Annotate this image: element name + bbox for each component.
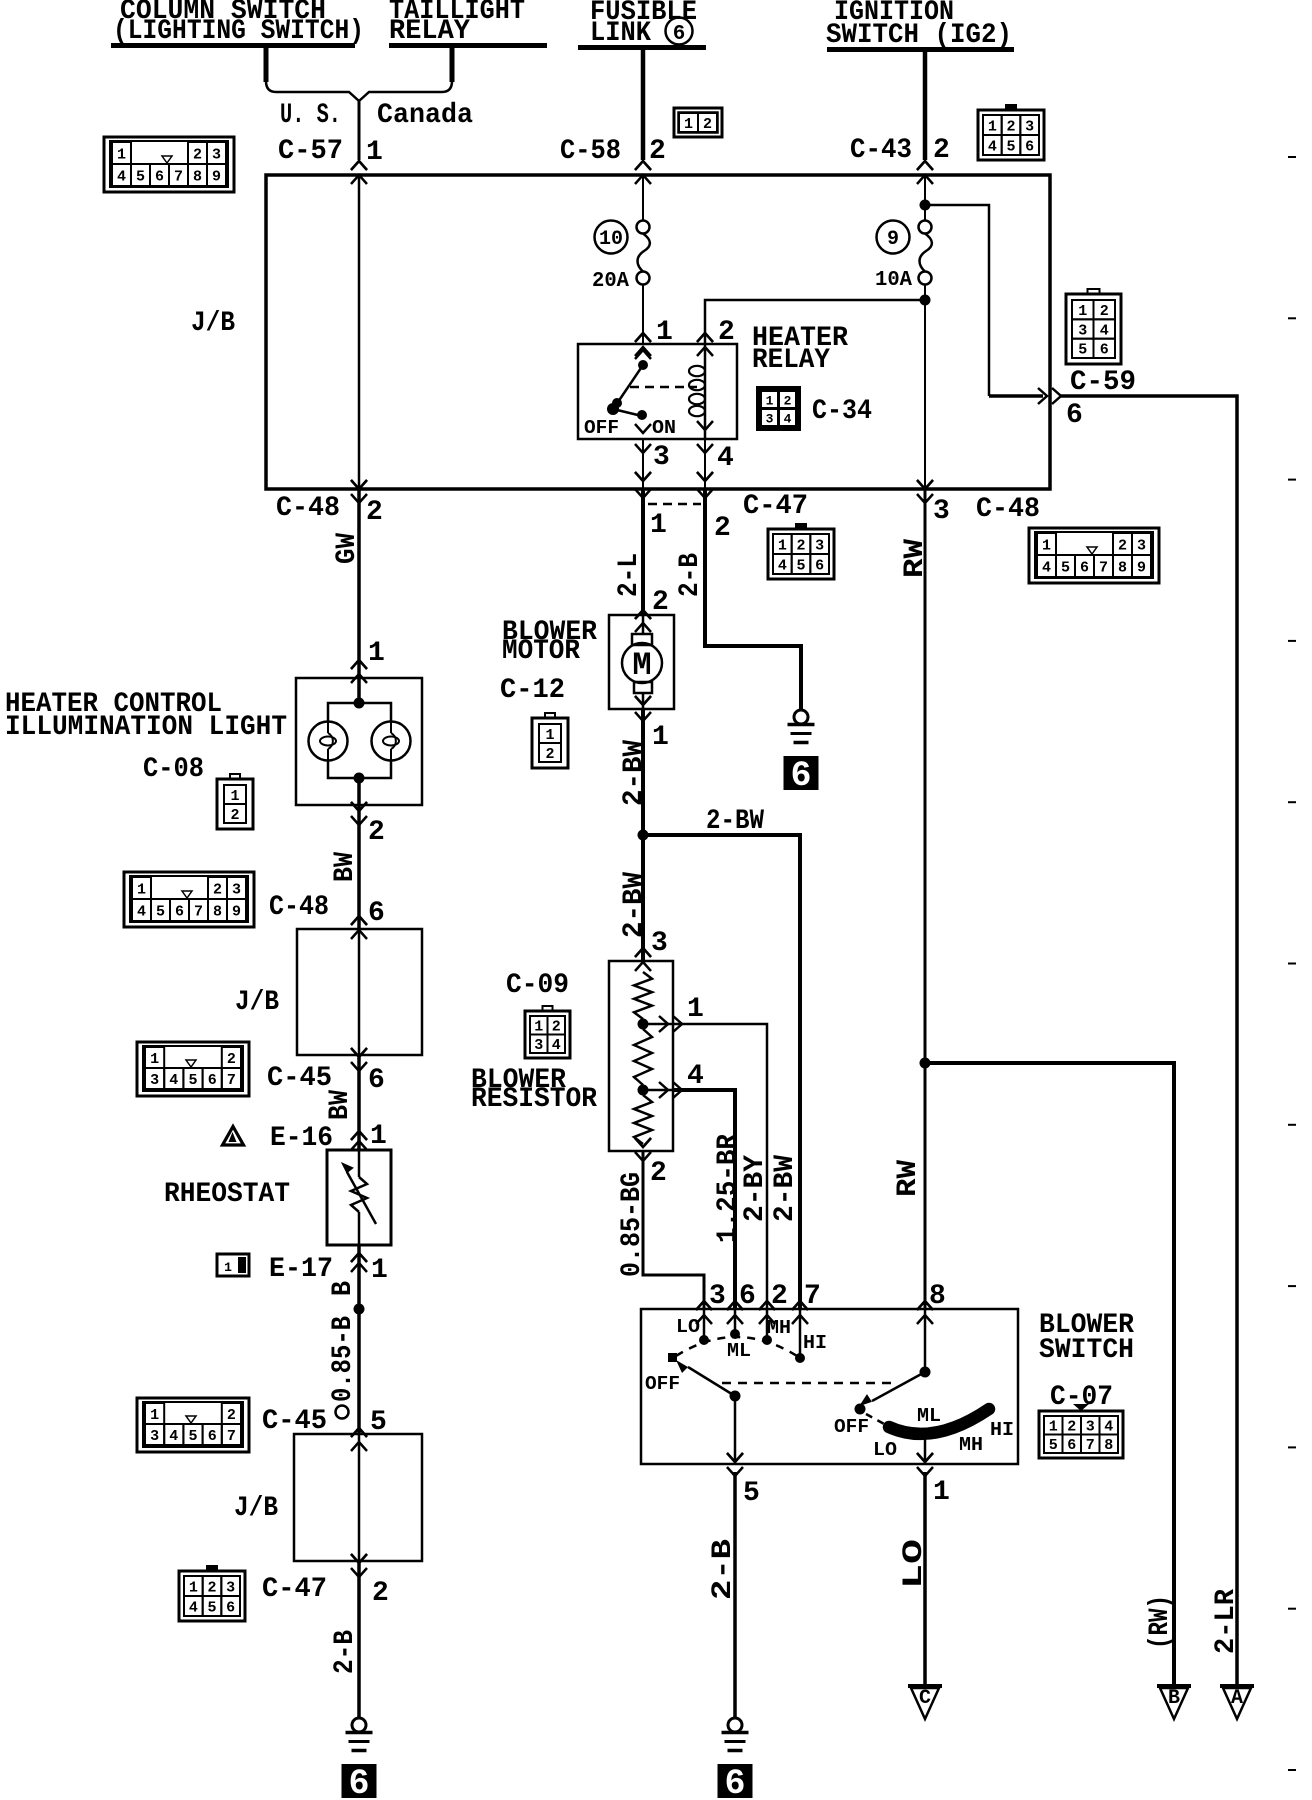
svg-text:2: 2 — [784, 394, 792, 409]
wire 2-BW branch to blower switch pin 7 — [643, 835, 800, 1309]
node relay feed branch — [920, 295, 931, 306]
connector icon C-45 lower — [137, 1398, 249, 1452]
svg-text:2: 2 — [366, 497, 383, 528]
connector icon C-45 — [137, 1042, 249, 1096]
svg-text:6: 6 — [1080, 559, 1089, 576]
motor symbol — [642, 615, 645, 634]
svg-text:E-17: E-17 — [269, 1254, 333, 1285]
svg-text:1: 1 — [137, 881, 146, 898]
switch contact crescent — [889, 1409, 989, 1434]
fuse 10 20A — [637, 221, 650, 234]
svg-text:C-45: C-45 — [267, 1063, 332, 1094]
svg-text:1: 1 — [650, 510, 667, 541]
svg-text:2: 2 — [1118, 537, 1127, 554]
svg-text:2: 2 — [207, 1579, 216, 1596]
svg-text:MOTOR: MOTOR — [502, 636, 580, 667]
svg-text:4: 4 — [778, 557, 787, 574]
svg-text:C-08: C-08 — [143, 754, 204, 785]
wire GW — [357, 489, 361, 678]
svg-text:SWITCH (IG2): SWITCH (IG2) — [826, 20, 1012, 51]
connector icon C-59 — [1088, 289, 1100, 294]
svg-text:2-BW: 2-BW — [619, 872, 650, 938]
svg-text:RELAY: RELAY — [752, 345, 830, 376]
svg-text:2: 2 — [227, 1407, 236, 1424]
svg-text:2: 2 — [193, 146, 202, 163]
connector icon C-43 — [1005, 104, 1017, 111]
switch BLOWER SWITCH box — [641, 1309, 1018, 1464]
svg-text:6: 6 — [208, 1428, 217, 1445]
svg-text:1: 1 — [224, 1260, 232, 1275]
svg-text:2: 2 — [649, 136, 666, 167]
wire 0.85-BG from resistor pin 2 — [635, 1138, 651, 1147]
wire BW to C-48 — [351, 802, 367, 811]
brace merging U.S./Canada feeds — [264, 48, 269, 82]
wire C-58 to fuse 10 — [642, 175, 644, 221]
svg-text:1: 1 — [1042, 537, 1051, 554]
svg-text:3: 3 — [653, 442, 670, 473]
node RW branch to B — [920, 1058, 931, 1069]
svg-text:8: 8 — [1118, 559, 1127, 576]
svg-text:3: 3 — [1025, 118, 1034, 135]
connector icon C-07 — [1073, 1404, 1089, 1411]
svg-text:SWITCH: SWITCH — [1039, 1335, 1134, 1366]
rheostat RHEOSTAT box — [327, 1150, 391, 1245]
svg-text:Canada: Canada — [377, 100, 473, 131]
svg-text:1: 1 — [371, 1255, 388, 1286]
wire fuse 9 to junction — [924, 285, 926, 489]
resistor element 3 — [634, 1095, 652, 1144]
relay pin 3 wire — [635, 424, 651, 433]
relay HEATER RELAY box — [578, 344, 737, 439]
switch pin 5 exit — [734, 1396, 737, 1464]
wire C-57 feed — [358, 101, 361, 160]
svg-text:7: 7 — [194, 903, 203, 920]
svg-text:1: 1 — [230, 788, 239, 805]
resistor element 2 — [634, 1029, 652, 1085]
svg-text:2: 2 — [650, 1158, 667, 1189]
svg-text:3: 3 — [232, 881, 241, 898]
wire B below rheostat — [357, 1245, 361, 1434]
svg-text:5: 5 — [156, 903, 165, 920]
ground middle — [728, 1718, 742, 1732]
svg-text:9: 9 — [232, 903, 241, 920]
svg-text:C-48: C-48 — [976, 494, 1040, 525]
svg-text:C-12: C-12 — [500, 675, 565, 706]
svg-text:1: 1 — [778, 537, 787, 554]
svg-text:3: 3 — [150, 1428, 159, 1445]
svg-text:5: 5 — [188, 1428, 197, 1445]
svg-text:C-47: C-47 — [743, 491, 808, 522]
svg-text:4: 4 — [717, 443, 734, 474]
svg-text:4: 4 — [169, 1072, 178, 1089]
svg-text:6: 6 — [1100, 342, 1109, 359]
ground marker 6 black box right — [784, 756, 819, 790]
switch dashed contact arc — [676, 1337, 797, 1356]
svg-text:9: 9 — [212, 168, 221, 185]
svg-text:LINK: LINK — [590, 18, 651, 49]
svg-text:ML: ML — [917, 1405, 941, 1427]
svg-text:3: 3 — [651, 928, 668, 959]
svg-text:2-LR: 2-LR — [1211, 1589, 1242, 1654]
wire C-57 through J/B — [358, 175, 361, 488]
switch contact LO — [703, 1309, 706, 1340]
svg-text:1: 1 — [545, 727, 554, 744]
wire C-43 to fuse 9 — [924, 175, 926, 221]
switch right OFF contact — [855, 1404, 866, 1415]
connector icon 2pin near fusible link — [674, 108, 722, 137]
svg-text:4: 4 — [1100, 322, 1109, 339]
relay coil — [704, 344, 707, 439]
wire resistor pin 1 (2-BY) — [643, 1024, 767, 1309]
svg-text:ML: ML — [727, 1340, 751, 1362]
svg-text:1: 1 — [684, 116, 693, 133]
svg-text:LO: LO — [676, 1316, 700, 1338]
ground left — [352, 1718, 366, 1732]
svg-text:2: 2 — [652, 587, 669, 618]
svg-text:2: 2 — [213, 881, 222, 898]
motor BLOWER MOTOR box — [609, 615, 674, 709]
svg-text:20A: 20A — [592, 270, 629, 293]
svg-text:RHEOSTAT: RHEOSTAT — [164, 1179, 290, 1210]
svg-text:2: 2 — [372, 1578, 389, 1609]
svg-text:3: 3 — [226, 1579, 235, 1596]
svg-text:10A: 10A — [875, 269, 912, 292]
svg-text:3: 3 — [534, 1037, 543, 1054]
wire fusible link feed — [641, 50, 646, 160]
svg-text:OFF: OFF — [645, 1373, 680, 1395]
svg-text:C-59: C-59 — [1070, 367, 1136, 398]
svg-text:MH: MH — [959, 1434, 983, 1456]
switch pin 1 exit — [924, 1437, 927, 1464]
svg-text:BW: BW — [325, 1090, 356, 1120]
svg-text:ILLUMINATION LIGHT: ILLUMINATION LIGHT — [5, 712, 287, 743]
svg-text:6: 6 — [175, 903, 184, 920]
svg-text:5: 5 — [1078, 342, 1087, 359]
svg-text:5: 5 — [796, 557, 805, 574]
rheostat element — [358, 1150, 361, 1177]
svg-text:GW: GW — [332, 533, 363, 564]
lamp internal wiring — [357, 678, 361, 703]
ground marker 6 black box middle — [718, 1764, 753, 1798]
svg-text:3: 3 — [1137, 537, 1146, 554]
connector icon C-12 — [545, 713, 555, 718]
svg-text:6: 6 — [739, 1281, 756, 1312]
node resistor pin 1 — [638, 1019, 649, 1030]
wire through C-59 to 2-LR — [989, 394, 1043, 398]
svg-text:0.85-B: 0.85-B — [328, 1316, 359, 1402]
connector C-48 pin 3 exit (RW) — [917, 480, 933, 489]
svg-text:4: 4 — [1042, 559, 1051, 576]
svg-text:7: 7 — [227, 1428, 236, 1445]
connector icon C-08 — [230, 774, 240, 779]
svg-text:C-57: C-57 — [278, 136, 343, 167]
svg-text:4: 4 — [169, 1428, 178, 1445]
svg-text:6: 6 — [673, 23, 686, 46]
svg-text:1: 1 — [1049, 1419, 1058, 1436]
svg-text:HI: HI — [803, 1332, 827, 1354]
svg-text:M: M — [632, 647, 651, 684]
svg-text:2-BW: 2-BW — [770, 1155, 801, 1222]
svg-text:2: 2 — [703, 116, 712, 133]
svg-text:8: 8 — [213, 903, 222, 920]
connector C-45 pin 6 exit — [351, 1048, 367, 1057]
switch pin 2 entry — [759, 1301, 775, 1310]
svg-text:7: 7 — [1086, 1437, 1095, 1454]
svg-text:6: 6 — [155, 168, 164, 185]
wire branch to C-59 — [925, 205, 989, 396]
warning triangle E-16 — [223, 1127, 244, 1146]
svg-text:C: C — [919, 1687, 931, 1710]
svg-text:2-BY: 2-BY — [740, 1155, 771, 1222]
svg-text:6: 6 — [348, 1764, 369, 1800]
svg-text:1: 1 — [370, 1121, 387, 1152]
svg-text:LO: LO — [873, 1439, 897, 1461]
svg-text:1: 1 — [117, 146, 126, 163]
svg-text:1: 1 — [988, 118, 997, 135]
connector C-47 pins 1,2 exit — [635, 472, 651, 481]
svg-text:2: 2 — [771, 1281, 788, 1312]
switch contact MH — [766, 1309, 769, 1340]
svg-text:2: 2 — [368, 817, 385, 848]
svg-text:6: 6 — [208, 1072, 217, 1089]
svg-text:2: 2 — [933, 135, 950, 166]
svg-text:3: 3 — [766, 412, 774, 427]
svg-text:6: 6 — [1066, 400, 1083, 431]
switch contact ML — [734, 1309, 737, 1334]
svg-text:6: 6 — [368, 1065, 385, 1096]
wire branch to heater relay pin 2 — [705, 300, 925, 344]
svg-text:7: 7 — [1099, 559, 1108, 576]
relay pin 4 wire — [704, 439, 706, 488]
connector B triangle — [1157, 1684, 1191, 1688]
svg-text:2: 2 — [1100, 303, 1109, 320]
relay dashed link — [630, 386, 697, 389]
svg-text:4: 4 — [137, 903, 146, 920]
svg-text:C-43: C-43 — [850, 135, 912, 166]
svg-text:4: 4 — [988, 138, 997, 155]
svg-text:4: 4 — [117, 168, 126, 185]
svg-text:10: 10 — [599, 228, 623, 251]
svg-text:6: 6 — [1025, 138, 1034, 155]
svg-text:8: 8 — [929, 1281, 946, 1312]
edge marks — [1288, 156, 1296, 158]
wire BW to rheostat — [357, 1055, 361, 1150]
svg-text:C-09: C-09 — [506, 970, 569, 1001]
wire LO from switch pin 1 to connector C — [923, 1472, 927, 1686]
svg-text:C-58: C-58 — [560, 136, 621, 167]
svg-text:6: 6 — [1067, 1437, 1076, 1454]
rheostat arrow — [347, 1172, 376, 1224]
switch contact OFF — [668, 1353, 677, 1362]
svg-text:B: B — [1168, 1687, 1180, 1710]
svg-text:OFF: OFF — [834, 1416, 869, 1438]
svg-text:6: 6 — [790, 756, 811, 796]
svg-text:1: 1 — [150, 1407, 159, 1424]
svg-text:3: 3 — [150, 1072, 159, 1089]
connector icon C-34 — [756, 386, 801, 431]
bulb right — [372, 722, 411, 761]
svg-text:2: 2 — [227, 1051, 236, 1068]
svg-text:ON: ON — [652, 417, 676, 439]
svg-text:2: 2 — [545, 746, 554, 763]
svg-text:1: 1 — [1078, 303, 1087, 320]
svg-text:5: 5 — [207, 1599, 216, 1616]
lamp HEATER CONTROL ILLUMINATION LIGHT box — [296, 678, 422, 805]
connector icon C-47 top — [795, 523, 807, 530]
node 2-BW branch — [638, 830, 649, 841]
svg-text:5: 5 — [1006, 138, 1015, 155]
connector C-48 pin 2 exit (GW) — [351, 480, 367, 489]
connector C-47 pin 2 exit — [351, 1554, 367, 1563]
switch pin 6 entry — [727, 1301, 743, 1310]
bulb left — [309, 722, 348, 761]
svg-text:4: 4 — [1104, 1419, 1113, 1436]
switch pin 7 entry — [792, 1301, 808, 1310]
svg-text:5: 5 — [188, 1072, 197, 1089]
wire resistor pin 4 (1.25-BR) — [643, 1089, 672, 1092]
svg-text:LO: LO — [899, 1539, 930, 1589]
svg-text:3: 3 — [709, 1281, 726, 1312]
svg-text:5: 5 — [743, 1478, 760, 1509]
relay switch contacts — [635, 350, 651, 359]
svg-text:6: 6 — [226, 1599, 235, 1616]
svg-text:(RW): (RW) — [1145, 1595, 1176, 1649]
svg-text:6: 6 — [368, 898, 385, 929]
svg-text:9: 9 — [1137, 559, 1146, 576]
svg-text:5: 5 — [1049, 1437, 1058, 1454]
switch left wiper — [688, 1367, 735, 1396]
fuse 9 10A — [919, 221, 932, 234]
svg-text:J/B: J/B — [191, 308, 235, 339]
ground marker 6 black box left — [342, 1764, 377, 1798]
svg-text:MH: MH — [767, 1317, 791, 1339]
wire ignition switch feed — [923, 52, 928, 160]
svg-text:1: 1 — [368, 638, 385, 669]
junction block J/B box — [266, 175, 1050, 489]
svg-text:RW: RW — [893, 1160, 924, 1197]
svg-text:2-B: 2-B — [330, 1630, 361, 1674]
switch dashed wiper link — [722, 1382, 898, 1385]
svg-text:1: 1 — [150, 1051, 159, 1068]
svg-text:3: 3 — [933, 496, 950, 527]
svg-text:B: B — [328, 1281, 359, 1296]
connector C triangle — [908, 1684, 942, 1688]
connector A triangle — [1220, 1684, 1254, 1688]
svg-text:3: 3 — [212, 146, 221, 163]
wire RW from C-48 to blower switch pin 8 — [924, 489, 927, 1309]
svg-text:2-L: 2-L — [614, 553, 645, 597]
svg-text:4: 4 — [552, 1037, 561, 1054]
svg-text:4: 4 — [189, 1599, 198, 1616]
svg-text:2: 2 — [552, 1019, 561, 1036]
svg-text:1: 1 — [652, 722, 669, 753]
svg-text:RESISTOR: RESISTOR — [471, 1084, 597, 1115]
svg-text:2-B: 2-B — [675, 553, 706, 597]
svg-text:HI: HI — [990, 1419, 1014, 1441]
node splice on B wire — [354, 1304, 365, 1315]
svg-text:8: 8 — [193, 168, 202, 185]
svg-text:E-16: E-16 — [270, 1123, 333, 1154]
wire 2-B to ground — [357, 1561, 361, 1718]
svg-text:1: 1 — [687, 994, 704, 1025]
svg-text:J/B: J/B — [235, 987, 279, 1018]
switch pin 8 entry — [917, 1301, 933, 1310]
svg-text:7: 7 — [227, 1072, 236, 1089]
svg-text:5: 5 — [136, 168, 145, 185]
svg-text:2: 2 — [796, 537, 805, 554]
svg-text:1: 1 — [933, 1477, 950, 1508]
wire fuse 10 to heater relay pin 1 — [642, 285, 644, 345]
svg-text:C-45: C-45 — [262, 1406, 327, 1437]
junction block J/B box 3 — [294, 1434, 422, 1561]
svg-text:C-47: C-47 — [262, 1574, 327, 1605]
connector icon C-48 right — [1029, 528, 1159, 583]
svg-text:4: 4 — [784, 412, 792, 427]
wire (RW) branch to connector B — [925, 1063, 1174, 1686]
svg-text:3: 3 — [1078, 322, 1087, 339]
svg-text:2: 2 — [230, 807, 239, 824]
ground near blower motor — [794, 710, 808, 724]
svg-text:C-34: C-34 — [812, 396, 872, 427]
svg-text:4: 4 — [687, 1061, 704, 1092]
resistor element 1 — [634, 972, 652, 1019]
svg-text:J/B: J/B — [234, 1493, 278, 1524]
switch pin 3 entry — [696, 1301, 712, 1310]
connector icon C-09 — [543, 1006, 553, 1011]
junction block J/B box 2 — [297, 929, 422, 1055]
svg-text:RW: RW — [900, 539, 931, 578]
switch right pivot — [924, 1309, 927, 1372]
connector icon C-47 lower — [206, 1565, 218, 1572]
svg-text:1: 1 — [766, 394, 774, 409]
svg-text:RELAY: RELAY — [389, 16, 470, 47]
svg-text:6: 6 — [724, 1764, 745, 1800]
connector E-17 icon — [217, 1254, 249, 1276]
svg-text:OFF: OFF — [584, 417, 619, 439]
svg-text:2: 2 — [1006, 118, 1015, 135]
svg-text:2-BW: 2-BW — [706, 806, 764, 837]
svg-text:1: 1 — [189, 1579, 198, 1596]
svg-text:6: 6 — [815, 557, 824, 574]
svg-text:C-48: C-48 — [276, 493, 340, 524]
svg-text:U. S.: U. S. — [280, 100, 341, 131]
svg-text:3: 3 — [815, 537, 824, 554]
svg-text:5: 5 — [1061, 559, 1070, 576]
wire 2-BW from motor — [635, 696, 651, 705]
svg-text:BW: BW — [330, 852, 361, 882]
node ignition branch — [920, 200, 931, 211]
svg-text:9: 9 — [887, 228, 899, 251]
svg-text:2-B: 2-B — [708, 1539, 739, 1600]
svg-text:2: 2 — [1067, 1419, 1076, 1436]
node resistor pin 4 — [638, 1085, 649, 1096]
connector icon C-48 left — [124, 872, 254, 927]
connector icon C-57 — [104, 137, 234, 192]
svg-text:7: 7 — [804, 1281, 821, 1312]
svg-text:A: A — [1231, 1687, 1243, 1710]
switch contact HI — [799, 1309, 802, 1358]
svg-text:C-48: C-48 — [269, 892, 329, 923]
svg-text:1: 1 — [366, 137, 383, 168]
svg-text:0.85-BG: 0.85-BG — [617, 1172, 648, 1277]
svg-text:7: 7 — [174, 168, 183, 185]
svg-text:3: 3 — [1086, 1419, 1095, 1436]
wire 2-L to blower motor — [641, 489, 645, 615]
wire 2-B from relay pin 4 to ground — [705, 489, 801, 710]
switch right wiper — [872, 1372, 925, 1401]
wire 2-B from switch pin 5 to ground — [733, 1472, 737, 1718]
svg-text:(LIGHTING SWITCH): (LIGHTING SWITCH) — [113, 16, 364, 47]
